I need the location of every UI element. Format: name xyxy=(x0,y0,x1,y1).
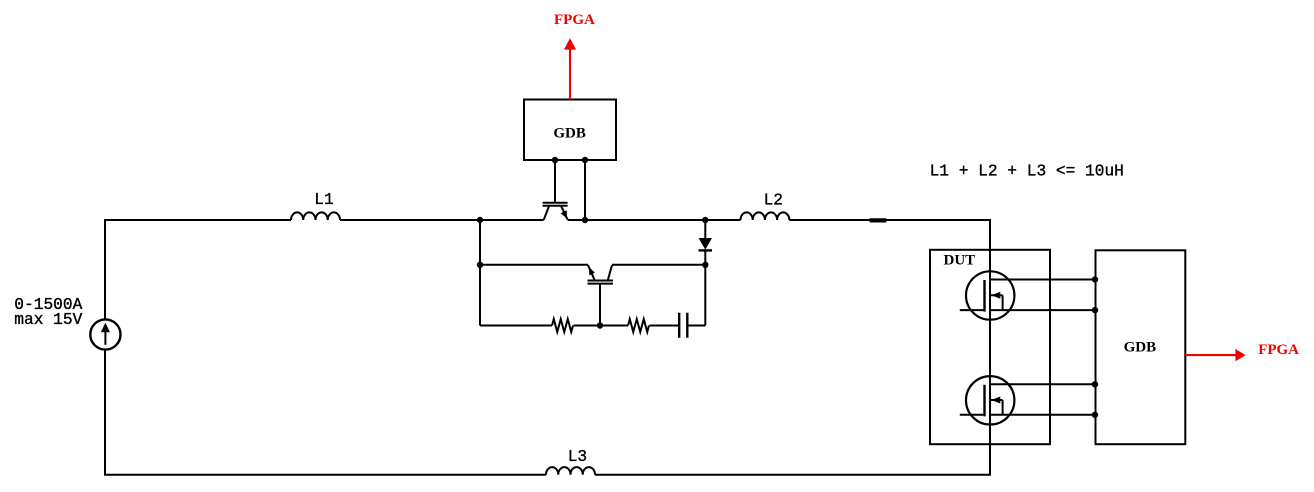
wire bottom right of L3 to right side up to L2 xyxy=(595,220,990,475)
wire Q3 drain sense to GDB xyxy=(990,279,1095,281)
arrow to FPGA top (red) xyxy=(564,38,1246,361)
svg-text:DUT: DUT xyxy=(944,253,976,269)
svg-text:L1: L1 xyxy=(314,191,333,209)
wire Q3 source stub xyxy=(990,295,1003,310)
wire Q4 source sense to GDB xyxy=(990,414,1095,416)
current source I1 circle xyxy=(90,319,120,349)
junction dot GDB pin right xyxy=(582,157,588,163)
junction dot GDB right pin 1 xyxy=(1092,276,1098,282)
transistor Q2 emitter leg xyxy=(588,265,595,280)
svg-text:GDB: GDB xyxy=(1124,339,1157,355)
transistor Q1 collector leg xyxy=(544,205,550,219)
mosfet Q4 gate plate xyxy=(983,385,985,417)
junction dot GDB right pin 4 xyxy=(1092,412,1098,418)
diode D1 cathode wire xyxy=(704,252,706,265)
mosfet Q3 circle xyxy=(966,271,1014,319)
junction dot diode anode node xyxy=(702,217,708,223)
wire capacitor to diode node xyxy=(687,265,705,326)
junction dot GDB right pin 2 xyxy=(1092,307,1098,313)
svg-text:L1 + L2 + L3 <= 10uH: L1 + L2 + L3 <= 10uH xyxy=(930,162,1124,180)
current source I1 arrowhead xyxy=(101,323,110,333)
mosfet Q4 circle xyxy=(966,376,1014,424)
inductor L3 xyxy=(546,467,595,475)
box GDB top (gate drive board) xyxy=(524,100,616,161)
transistor Q2 collector leg xyxy=(608,265,612,280)
inductor L2 xyxy=(741,212,790,220)
diode D1 triangle xyxy=(699,238,713,250)
svg-text:max 15V: max 15V xyxy=(14,311,82,329)
mosfet Q3 gate lead xyxy=(960,309,985,311)
wire Q2 gate stem xyxy=(599,283,601,325)
mosfet Q3 source arrowhead xyxy=(991,292,1000,299)
wire top between IGBT and L2 xyxy=(568,219,741,221)
wire snubber middle left xyxy=(480,264,588,266)
svg-text:GDB: GDB xyxy=(553,125,586,141)
box DUT xyxy=(930,250,1050,444)
junction dot diode cathode node xyxy=(702,262,708,268)
wire snubber bottom xyxy=(480,325,679,327)
svg-text:FPGA: FPGA xyxy=(1258,342,1299,358)
diode D1 anode wire xyxy=(704,220,706,238)
transistor Q1 emitter leg xyxy=(561,205,568,219)
svg-text:L2: L2 xyxy=(764,192,783,210)
transistor Q2 gate bars xyxy=(588,281,614,284)
wire Q4 source stub xyxy=(990,400,1003,415)
mosfet Q3 gate plate xyxy=(983,280,985,312)
transistor Q1 IGBT gate bars xyxy=(543,203,568,206)
wire top-left from source to L1 xyxy=(105,220,291,320)
transistor Q2 emitter arrowhead xyxy=(589,267,595,276)
junction dot GDB right pin 3 xyxy=(1092,381,1098,387)
resistor R2 xyxy=(628,319,649,332)
svg-text:FPGA: FPGA xyxy=(554,12,595,28)
wire gate from GDB to IGBT Q1 xyxy=(554,160,556,202)
wire Q4 drain sense to GDB xyxy=(990,383,1095,385)
wire top between L1 and IGBT xyxy=(340,219,544,221)
box GDB right xyxy=(1096,250,1186,444)
arrow to FPGA right (red) xyxy=(1185,354,1237,356)
junction dot snubber left xyxy=(477,262,483,268)
junction dot GDB pin left xyxy=(552,157,558,163)
wire overlap segment on top wire xyxy=(870,218,887,222)
wire left below source to bottom-left corner and to L3 xyxy=(105,350,546,475)
wire from GDB to emitter node xyxy=(584,160,586,220)
mosfet Q4 gate lead xyxy=(960,414,985,416)
junction dot Q2 stem node xyxy=(597,322,603,328)
capacitor C1 plates xyxy=(679,313,687,338)
svg-text:L3: L3 xyxy=(568,448,587,466)
mosfet Q4 source arrowhead xyxy=(991,397,1000,404)
diode D1 cathode bar xyxy=(699,249,713,251)
resistor R1 xyxy=(552,319,573,332)
junction dot L1 node xyxy=(477,217,483,223)
wire Q3 source sense to GDB xyxy=(990,309,1095,311)
junction dot emitter node xyxy=(582,217,588,223)
current source I1 arrow shaft xyxy=(104,332,106,345)
wire snubber left vertical xyxy=(479,220,481,326)
inductor L1 xyxy=(291,212,340,220)
wire snubber middle right xyxy=(612,264,705,266)
transistor Q1 emitter arrowhead xyxy=(561,210,568,219)
